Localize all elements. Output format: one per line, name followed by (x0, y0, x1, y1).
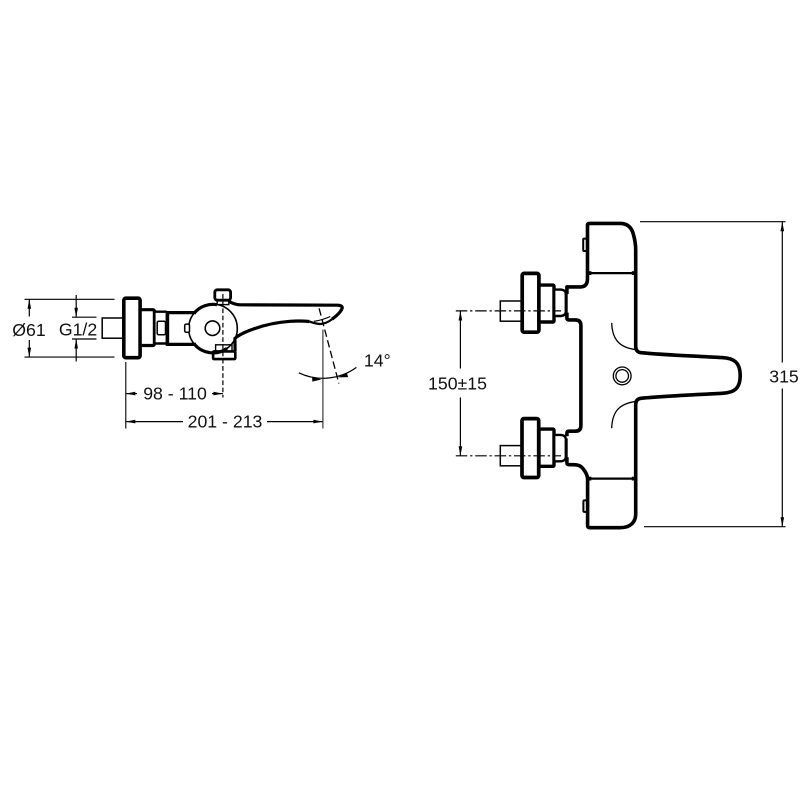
main body block (side view) (167, 311, 196, 314)
arrow 150±15 down (459, 446, 463, 456)
extension line G1/2 bottom (72, 338, 97, 340)
svg-text:150±15: 150±15 (428, 373, 487, 393)
top cylinder 1 (front view) (539, 285, 554, 322)
dimension line 98-110 (126, 393, 137, 395)
dimension line Ø61 (28, 299, 30, 316)
knob inner circle (205, 321, 220, 336)
top cylinder 2 (front view) (554, 290, 566, 316)
arrow G1/2 top (75, 295, 77, 317)
bottom inlet dashed axis (456, 455, 561, 457)
spout mouth inner line (314, 317, 331, 322)
arrow 201-213 left (126, 420, 136, 424)
top joint line (566, 294, 568, 313)
spout (side view) outline (229, 302, 342, 352)
arrow 201-213 right (313, 420, 323, 424)
left tab on knob circle (185, 324, 190, 332)
svg-text:201 - 213: 201 - 213 (188, 412, 263, 432)
top cap side tab (583, 239, 587, 251)
svg-text:G1/2: G1/2 (59, 320, 97, 340)
extension line 315 bottom (644, 526, 786, 528)
bottom wall pipe (front view) (500, 446, 521, 466)
extension line Ø61 bottom (25, 356, 115, 358)
angle arc 14 degrees (299, 367, 357, 378)
knob circle thick silhouette arc, top (195, 304, 217, 312)
arrow Ø61 down (28, 348, 32, 358)
extension line Ø61 top (25, 298, 115, 300)
wall flange escutcheon (side view) (124, 298, 140, 358)
arrow Ø61 up (28, 299, 32, 309)
top cap parting line (589, 272, 635, 274)
arrow 150±15 up (459, 311, 463, 321)
arrow 315 up (781, 222, 785, 232)
extension line 315 top (640, 221, 786, 223)
top knob stem (side view) (217, 300, 229, 305)
body outline (front view) (567, 223, 620, 294)
bottom cap side tab (583, 500, 587, 512)
body cylinder 1 (side view) (140, 310, 154, 346)
top knob cap (side view) (215, 290, 231, 300)
vertical centerline through knob (222, 294, 224, 398)
dimension line 150±15 (459, 311, 461, 368)
top wall pipe (front view) (500, 301, 521, 321)
spout fillet thin arc top (612, 323, 637, 350)
bottom cylinder 1 (front view) (539, 429, 554, 466)
set screw square on cylinder 2 (157, 321, 165, 335)
bottom wall flange (front view) (522, 419, 539, 478)
dimension line 201-213 (126, 421, 183, 423)
svg-text:315: 315 (769, 367, 799, 387)
arrow 98-110 right (213, 392, 223, 396)
bottom stop stem (side view) (216, 345, 232, 352)
angle arrow left (312, 377, 322, 382)
spout (side view) white fill (225, 302, 342, 352)
bottom joint line (566, 438, 568, 457)
angled 14 degree dashed line (319, 308, 339, 383)
wall pipe G1/2 stub (side view) (102, 318, 124, 338)
arrow G1/2 bottom (75, 339, 77, 362)
screw circle outer (front view) (613, 367, 631, 385)
extension line left (flange face) (125, 362, 127, 429)
dimension line 315 (781, 222, 783, 363)
top wall flange (front view) (522, 273, 539, 332)
top inlet dashed axis (456, 310, 561, 312)
spout mouth lip (310, 319, 333, 324)
vertical reference line below spout (322, 330, 324, 429)
screw circle inner (front view) (616, 370, 629, 383)
arrow 315 down (781, 517, 785, 527)
bottom cylinder 2 (front view) (554, 435, 566, 461)
bottom cap parting line (589, 478, 635, 480)
arrow 98-110 left (126, 392, 136, 396)
svg-text:98 - 110: 98 - 110 (143, 383, 207, 403)
bottom stop cap (side view) (213, 351, 235, 359)
spout fillet thin arc bottom (612, 401, 637, 428)
body cylinder 2 right edge (166, 312, 169, 343)
svg-text:Ø61: Ø61 (12, 320, 45, 340)
body cylinder 2 (side view) (154, 312, 167, 344)
svg-text:14°: 14° (364, 351, 391, 371)
knob circle thick silhouette arc, bottom (195, 345, 227, 353)
body right side with spout (front view) (620, 223, 740, 527)
extension line G1/2 top (72, 316, 97, 318)
angle arrow right (338, 373, 348, 378)
knob circle (side view) (189, 304, 238, 353)
